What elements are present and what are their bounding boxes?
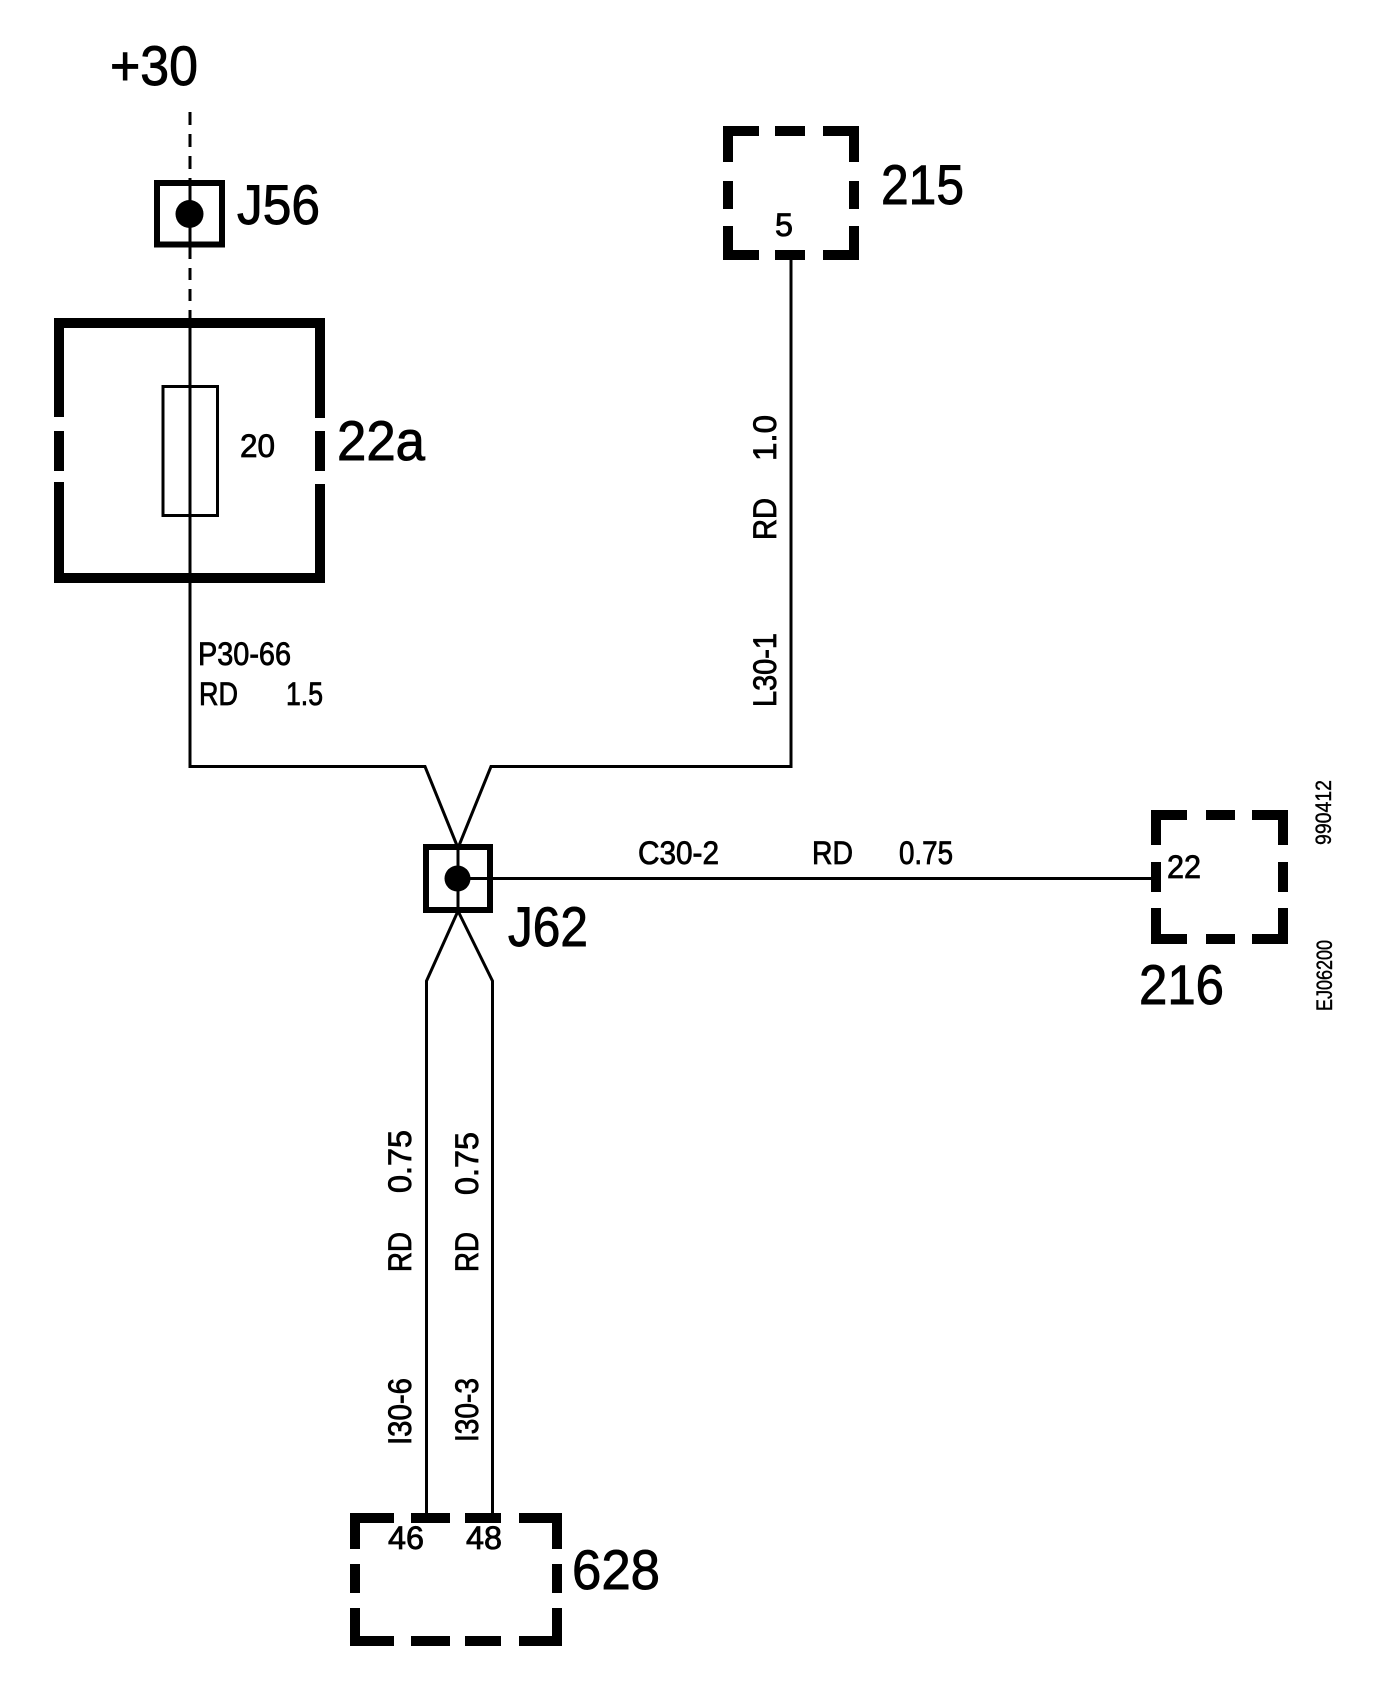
- pin 5 of connector 215: [775, 207, 793, 243]
- wire label I30-3 RD 0.75 (rotated): [449, 1132, 485, 1442]
- junction J62 box: [426, 847, 490, 910]
- fuse 20 symbol: [163, 387, 218, 516]
- fuse value 20: [240, 428, 275, 464]
- svg-text:22a: 22a: [337, 409, 426, 472]
- wire label RD 1.5: [199, 676, 323, 712]
- label 628: [572, 1538, 660, 1601]
- svg-text:P30-66: P30-66: [198, 636, 291, 672]
- wire J62 to connector 216: [458, 877, 1156, 880]
- svg-text:628: 628: [572, 1538, 660, 1601]
- wire label C30-2 RD 0.75: [638, 835, 953, 871]
- svg-text:990412: 990412: [1311, 780, 1336, 845]
- connector 216 dashed box: [1151, 810, 1288, 944]
- doc number EJ06200 (rotated): [1312, 940, 1337, 1011]
- svg-text:48: 48: [466, 1520, 502, 1556]
- svg-text:216: 216: [1139, 953, 1224, 1016]
- wire J62 to 628 pin 46: [427, 911, 459, 1519]
- doc number 990412 (rotated): [1311, 780, 1336, 845]
- junction J56 box: [157, 183, 222, 245]
- wire label P30-66: [198, 636, 291, 672]
- wire 215 pin5 down, corner to junction J62 right branch: [458, 255, 791, 848]
- svg-text:1.0: 1.0: [747, 415, 783, 461]
- connector 215 dashed box: [723, 126, 859, 260]
- svg-text:5: 5: [775, 207, 793, 243]
- svg-text:215: 215: [881, 153, 964, 216]
- svg-text:0.75: 0.75: [899, 835, 953, 871]
- svg-text:RD: RD: [747, 498, 783, 540]
- junction J56 dot: [176, 200, 204, 228]
- node +30 battery feed label: [110, 34, 198, 97]
- label J62: [508, 895, 588, 958]
- svg-text:20: 20: [240, 428, 275, 464]
- svg-text:1.5: 1.5: [286, 676, 323, 712]
- svg-text:I30-3: I30-3: [449, 1378, 485, 1442]
- svg-text:46: 46: [388, 1520, 424, 1556]
- svg-text:RD: RD: [812, 835, 853, 871]
- label J56: [237, 173, 320, 236]
- wire dashed feed +30 to J56: [189, 112, 192, 180]
- wire dashed J56 to fusebox 22a: [189, 247, 192, 318]
- svg-text:22: 22: [1167, 849, 1201, 885]
- svg-text:L30-1: L30-1: [747, 633, 783, 707]
- label 22a: [337, 409, 426, 472]
- svg-text:RD: RD: [382, 1232, 418, 1272]
- wire through J56: [189, 180, 192, 250]
- svg-text:0.75: 0.75: [382, 1130, 418, 1193]
- svg-text:RD: RD: [449, 1232, 485, 1272]
- label 216: [1139, 953, 1224, 1016]
- label 215: [881, 153, 964, 216]
- svg-text:I30-6: I30-6: [382, 1378, 418, 1445]
- wire from fusebox down, corner to junction J62 left branch: [190, 318, 458, 848]
- fusebox 22a dashed border: [54, 318, 325, 583]
- connector 628 dashed box: [350, 1513, 562, 1646]
- svg-text:C30-2: C30-2: [638, 835, 719, 871]
- wire label L30-1 RD 1.0 (rotated): [747, 415, 783, 707]
- junction J62 dot: [445, 866, 471, 892]
- pin 22 of connector 216: [1167, 849, 1201, 885]
- svg-text:J62: J62: [508, 895, 588, 958]
- wire label I30-6 RD 0.75 (rotated): [382, 1130, 418, 1445]
- svg-text:EJ06200: EJ06200: [1312, 940, 1337, 1011]
- pin 46 of connector 628: [388, 1520, 424, 1556]
- wire through J62: [457, 848, 460, 910]
- svg-text:RD: RD: [199, 676, 238, 712]
- svg-text:J56: J56: [237, 173, 320, 236]
- svg-text:0.75: 0.75: [449, 1132, 485, 1195]
- wire J62 to 628 pin 48: [458, 911, 493, 1519]
- svg-text:+30: +30: [110, 34, 198, 97]
- pin 48 of connector 628: [466, 1520, 502, 1556]
